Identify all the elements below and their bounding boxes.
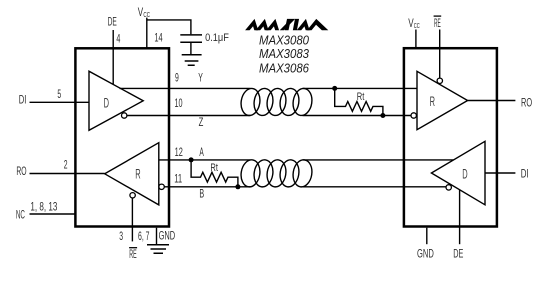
svg-text:CC: CC bbox=[143, 10, 150, 19]
svg-text:DI: DI bbox=[521, 169, 529, 181]
junction (bottom pair, B side) bbox=[235, 184, 240, 189]
svg-text:0.1μF: 0.1μF bbox=[205, 32, 229, 44]
wire Y bus top bbox=[120, 87, 251, 89]
svg-text:10: 10 bbox=[175, 98, 183, 110]
svg-text:R: R bbox=[135, 167, 141, 182]
MAXIM logo bbox=[245, 19, 328, 30]
svg-text:B: B bbox=[199, 189, 204, 201]
svg-text:9: 9 bbox=[175, 73, 179, 85]
bubble RE enable U1 bbox=[130, 193, 135, 198]
svg-text:MAX3083: MAX3083 bbox=[259, 47, 309, 61]
svg-text:GND: GND bbox=[159, 230, 176, 242]
ground (left box) bbox=[147, 245, 169, 253]
bubble inverting output U2 driver bbox=[446, 185, 451, 190]
svg-text:NC: NC bbox=[16, 209, 25, 221]
wire Vcc branch to capacitor bbox=[147, 20, 191, 34]
svg-text:MAX3080: MAX3080 bbox=[259, 33, 309, 47]
IC box U1 (left transceiver) bbox=[75, 48, 169, 226]
wire DI to driver, pin 5 bbox=[30, 101, 90, 103]
svg-text:DE: DE bbox=[453, 248, 463, 260]
driver U2 D triangle bbox=[431, 141, 485, 205]
svg-text:DE: DE bbox=[108, 17, 117, 29]
svg-text:1, 8, 13: 1, 8, 13 bbox=[30, 202, 57, 214]
resistor Rt (top termination) bbox=[335, 88, 383, 115]
svg-text:RO: RO bbox=[16, 166, 26, 178]
receiver U2 R triangle bbox=[417, 71, 468, 129]
svg-text:Rt: Rt bbox=[357, 91, 365, 103]
bubble RE enable U2 bbox=[437, 78, 442, 83]
twisted pair (top) bbox=[239, 87, 314, 117]
wire DI (right) bbox=[485, 172, 515, 174]
receiver U1 R triangle bbox=[105, 143, 159, 205]
wire Z bus bbox=[127, 115, 251, 117]
svg-text:MAX3086: MAX3086 bbox=[259, 61, 309, 75]
IC box U2 (right transceiver) bbox=[404, 48, 497, 226]
wire NC stub, pins 1,8,13 bbox=[30, 213, 75, 215]
svg-text:6, 7: 6, 7 bbox=[138, 231, 150, 243]
svg-text:12: 12 bbox=[175, 147, 183, 159]
wire DE to U1 driver bbox=[112, 30, 114, 85]
wire GND pin 6,7 bbox=[156, 228, 158, 245]
bubble B input U1 receiver bbox=[159, 184, 164, 189]
driver U1 D triangle bbox=[89, 71, 143, 130]
bubble Z output U1 bbox=[122, 113, 127, 118]
wire RO (right) bbox=[468, 100, 516, 102]
resistor Rt (bottom termination) bbox=[191, 160, 238, 187]
svg-text:Z: Z bbox=[199, 117, 204, 129]
svg-text:2: 2 bbox=[64, 159, 68, 171]
svg-text:3: 3 bbox=[119, 231, 123, 243]
wire A to U2 driver output bbox=[303, 159, 454, 161]
svg-text:4: 4 bbox=[116, 34, 120, 46]
svg-text:5: 5 bbox=[57, 89, 61, 101]
wire RE to U2 receiver enable bbox=[439, 30, 441, 79]
wire Vcc to pin 14 bbox=[146, 18, 148, 48]
svg-text:D: D bbox=[104, 96, 110, 111]
wire RE enable U1 receiver bbox=[131, 198, 133, 241]
wire B from U1 receiver pin 11 bbox=[164, 186, 250, 188]
svg-text:A: A bbox=[199, 147, 204, 159]
svg-text:GND: GND bbox=[417, 248, 434, 260]
wire A from U1 receiver pin 12 bbox=[159, 159, 251, 161]
svg-text:Rt: Rt bbox=[210, 162, 218, 174]
svg-text:14: 14 bbox=[154, 32, 163, 44]
junction (top pair, A side) bbox=[332, 86, 337, 91]
svg-text:Y: Y bbox=[198, 73, 203, 85]
wire capacitor to ground bbox=[190, 42, 192, 55]
svg-text:RO: RO bbox=[521, 97, 532, 109]
capacitor C1 0.1uF bbox=[180, 35, 202, 42]
bubble B input U2 receiver bbox=[411, 113, 416, 118]
svg-text:D: D bbox=[462, 166, 468, 181]
svg-text:RE: RE bbox=[129, 249, 137, 261]
wire Y to U2 receiver input A bbox=[303, 87, 418, 89]
ground (capacitor) bbox=[182, 55, 202, 66]
svg-text:RE: RE bbox=[434, 18, 441, 30]
wire B to U2 driver inverting output bbox=[303, 186, 447, 188]
svg-text:R: R bbox=[430, 94, 436, 109]
wire GND (right) bbox=[426, 228, 428, 245]
junction (top pair, B side) bbox=[380, 113, 385, 118]
twisted pair (bottom) bbox=[239, 158, 314, 188]
junction (bottom pair, A side) bbox=[189, 157, 194, 162]
wire DE U2 driver bbox=[459, 190, 461, 245]
wire Z to U2 receiver input B bbox=[303, 115, 412, 117]
wire Vcc (right) bbox=[415, 30, 417, 48]
svg-text:CC: CC bbox=[414, 21, 421, 30]
wire RO from receiver tip, pin 2 bbox=[30, 173, 105, 175]
svg-text:DI: DI bbox=[19, 94, 27, 106]
svg-text:11: 11 bbox=[174, 174, 182, 186]
